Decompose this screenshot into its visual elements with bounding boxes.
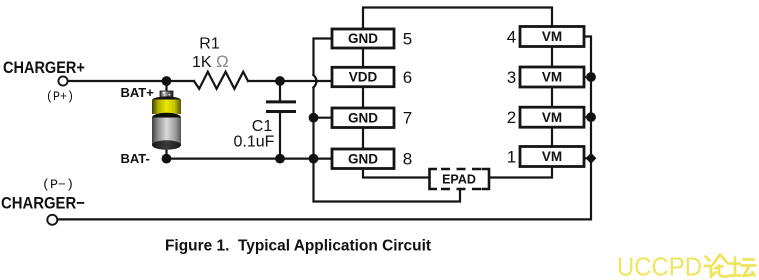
svg-text:EPAD: EPAD: [442, 173, 476, 187]
svg-text:(P+): (P+): [46, 90, 74, 104]
svg-text:VM: VM: [542, 29, 562, 44]
svg-text:C1: C1: [252, 118, 273, 135]
svg-text:BAT+: BAT+: [121, 85, 155, 100]
svg-text:VDD: VDD: [349, 70, 378, 85]
svg-text:VM: VM: [542, 149, 562, 164]
svg-text:1: 1: [507, 148, 516, 167]
svg-text:R1: R1: [199, 36, 220, 53]
svg-text:VM: VM: [542, 70, 562, 85]
svg-text:CHARGER+: CHARGER+: [3, 59, 85, 77]
svg-text:VM: VM: [542, 110, 562, 125]
svg-text:0.1uF: 0.1uF: [234, 134, 275, 151]
svg-text:GND: GND: [348, 151, 378, 166]
svg-text:6: 6: [403, 68, 412, 87]
svg-text:(P−): (P−): [42, 178, 74, 192]
svg-text:GND: GND: [348, 31, 378, 46]
svg-text:UCCPD: UCCPD: [617, 253, 702, 280]
svg-text:7: 7: [403, 109, 412, 128]
svg-text:4: 4: [507, 28, 516, 47]
svg-text:2: 2: [507, 108, 516, 127]
svg-text:1K Ω: 1K Ω: [192, 52, 229, 71]
svg-text:GND: GND: [348, 110, 378, 125]
svg-text:8: 8: [403, 150, 412, 169]
svg-text:5: 5: [403, 30, 412, 49]
svg-text:Figure 1. Typical Application: Figure 1. Typical Application Circuit: [165, 237, 431, 254]
svg-text:CHARGER−: CHARGER−: [1, 194, 85, 212]
svg-text:3: 3: [507, 68, 516, 87]
svg-text:BAT-: BAT-: [121, 151, 150, 166]
